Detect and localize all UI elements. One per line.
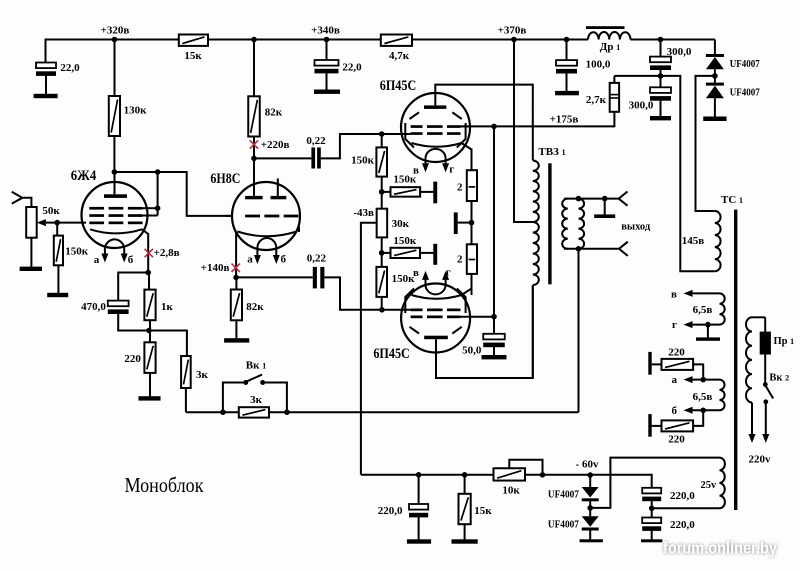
beam side rails lower [405, 289, 414, 314]
node cathode 6Н8С [233, 275, 239, 281]
svg-text:UF4007: UF4007 [548, 490, 579, 501]
svg-text:б: б [281, 254, 287, 266]
heater lead в upper [425, 158, 427, 165]
heater arch lower 6П45С [426, 285, 446, 295]
wire 220 upper to а node [693, 364, 703, 379]
svg-text:300,0: 300,0 [629, 100, 654, 112]
resistor 4,7к (rail) [381, 35, 412, 46]
ground below 150к input [47, 293, 68, 297]
node screen rail top [491, 124, 497, 130]
wire б lead [693, 409, 720, 411]
svg-text:6П45С: 6П45С [380, 78, 417, 94]
svg-text:6П45С: 6П45С [373, 346, 410, 362]
svg-text:150к: 150к [393, 235, 417, 247]
svg-text:ТС 1: ТС 1 [721, 194, 743, 206]
wire -43в tap [361, 223, 377, 475]
resistor 1к [148, 273, 150, 290]
svg-text:в: в [413, 267, 419, 279]
wire ground tap [707, 325, 709, 338]
svg-text:+140в: +140в [201, 262, 230, 274]
ground sideways upper 220 [648, 352, 651, 375]
wire chain top to mid [381, 177, 383, 209]
wire +175в line [461, 125, 615, 127]
resistor 30к [377, 209, 388, 238]
winding 25v [720, 458, 725, 509]
ground below 50,0 [482, 355, 507, 359]
node between D1 D2 [712, 73, 718, 79]
capacitor 470,0 [108, 301, 129, 307]
wire 3к to feedback rail [185, 388, 187, 412]
winding 220v primary ТС1 [746, 317, 752, 402]
resistor 3к (rail) [239, 407, 269, 417]
ground sideways lower 220 [648, 414, 651, 437]
anode 2 stub [277, 178, 279, 196]
ground below 300,0 #2 [650, 116, 671, 120]
node 82к top junction [251, 37, 257, 43]
heater arch 6Н8С [257, 238, 276, 247]
svg-text:б: б [672, 405, 678, 417]
ground below 220 [138, 396, 160, 400]
node bypass right [284, 409, 290, 415]
cathode arc 6Ж4 [90, 229, 142, 233]
svg-text:Др 1: Др 1 [600, 41, 620, 53]
resistor 150к (stopper 1) [391, 187, 421, 197]
switch Вк2 [763, 382, 768, 387]
anode 2 of 6Н8С [271, 196, 287, 199]
wire 0,22 #1 to upper grid line [321, 134, 411, 158]
output fork bottom [619, 242, 628, 256]
wire screen lower to node [461, 316, 495, 318]
resistor 2,7к [610, 83, 619, 112]
anode upper 6П45С [424, 105, 446, 109]
heater lead г upper [445, 158, 447, 165]
ground 6,5в [696, 337, 720, 340]
resistor 15к (bias) [464, 475, 466, 494]
heater lead а 6Н8С [256, 247, 258, 258]
svg-text:30к: 30к [392, 218, 410, 230]
svg-text:+340в: +340в [311, 25, 340, 37]
svg-text:50,0: 50,0 [462, 344, 482, 356]
capacitor 100,0 [556, 60, 577, 66]
svg-text:3к: 3к [250, 394, 263, 406]
control grid dashes lower [411, 309, 423, 312]
svg-text:2: 2 [457, 182, 463, 194]
svg-text:в: в [671, 288, 677, 300]
wire 2 lower to lower tube cathode [471, 274, 473, 295]
transformer ТВЗ1 primary winding [533, 161, 539, 223]
heater arch upper 6П45С [426, 149, 446, 159]
capacitor 300,0 #1 [650, 57, 671, 63]
wire 220,0 bias to ground [418, 515, 420, 540]
wire primary bottom to 220v arrow [751, 403, 753, 435]
wire grid line into envelope [225, 215, 232, 217]
resistor 130к [109, 96, 120, 136]
svg-text:6,5в: 6,5в [693, 391, 713, 403]
wire to 150к stopper 2 [382, 252, 391, 254]
svg-text:130к: 130к [124, 105, 148, 117]
svg-text:220: 220 [668, 434, 685, 446]
node 6,5в ground tap [705, 322, 711, 328]
wire 0,22 #2 to lower grid line [324, 277, 410, 309]
wire 2 upper to midpoint [471, 201, 473, 244]
tube 6Ж4 envelope [82, 182, 148, 248]
heater lead г lower [445, 277, 447, 284]
ground below 82к [224, 338, 249, 342]
svg-text:100,0: 100,0 [586, 59, 611, 71]
svg-text:150к: 150к [392, 273, 416, 285]
resistor 220 (ТС lower) [662, 420, 694, 431]
wire bypass left riser [223, 383, 246, 413]
heater lead б 6Н8С [275, 247, 277, 258]
switch Вк1 [243, 380, 248, 385]
node bypass left [220, 409, 226, 415]
wire mid node to 2,7к top [614, 75, 660, 77]
svg-text:г: г [672, 319, 677, 331]
svg-text:82к: 82к [246, 301, 264, 313]
wire stopper 2 to grid terminal [420, 252, 433, 254]
output fork top [619, 192, 628, 206]
svg-text:220,0: 220,0 [670, 519, 695, 531]
resistor 82к (anode 6Н8С) [253, 40, 255, 97]
svg-text:а: а [672, 374, 678, 386]
wire screen rail vertical [493, 126, 495, 316]
cathode terminal bar middle [454, 212, 458, 234]
grid terminal bar upper [433, 182, 437, 204]
tube 6П45С upper envelope [401, 93, 470, 162]
heater lead а 6Ж4 [104, 249, 106, 257]
wire screen upper to +175в [461, 125, 471, 127]
wire anode upper to ТВЗ [435, 85, 533, 161]
svg-text:0,22: 0,22 [307, 253, 327, 265]
resistor 220 (cathode) [149, 331, 151, 343]
wire в lead [693, 292, 720, 294]
wire g3 to tie point [143, 207, 158, 209]
wire ground stub [604, 199, 606, 215]
node g3 tie [155, 205, 161, 211]
ground below 220,0 B [641, 539, 662, 542]
ground below 220,0 bias [407, 539, 431, 543]
svg-text:220: 220 [668, 347, 685, 359]
wire g2 g3 tie vertical [157, 172, 159, 216]
wire screen node to 50,0 [493, 317, 495, 334]
wire cathode 6Н8С down [235, 232, 237, 278]
resistor 150к (input) [54, 236, 63, 266]
wire cathode terminal to 2ohm column [458, 222, 472, 224]
wire 220 lower to ground [652, 425, 662, 427]
wire 300,0 #1 to mid node [660, 68, 662, 76]
capacitor 22,0 (left) [36, 63, 56, 69]
svg-text:Вк 2: Вк 2 [769, 372, 789, 383]
heater lead в lower [425, 277, 427, 284]
capacitor 22,0 (second) [315, 60, 339, 66]
svg-text:выход: выход [621, 222, 651, 233]
node screen rail bottom [491, 314, 497, 320]
diode D3 UF4007 [589, 475, 591, 487]
node secondary top right coil [576, 196, 582, 202]
red mark +2,8в [145, 249, 153, 257]
wire +370в node down to 100,0 [566, 40, 568, 61]
inductor Др1 choke [586, 26, 625, 29]
wire 150к to ground [57, 265, 59, 293]
svg-text:470,0: 470,0 [81, 301, 106, 313]
red mark +140в [232, 264, 240, 272]
resistor 82к (cathode 6Н8С) [235, 277, 237, 289]
cathode arc lower 6П45С [412, 295, 462, 299]
wire 130к to anode node [113, 136, 115, 172]
svg-text:Вк 1: Вк 1 [246, 360, 266, 372]
node caps 220,0 midpoint [649, 506, 655, 512]
resistor 3к (vertical) [181, 356, 191, 388]
ground below 50к [20, 267, 42, 271]
tube 6Н8С envelope [232, 182, 300, 250]
screen grid dashes lower [411, 316, 423, 319]
wire anode 6Ж4 to 6Н8С grid [114, 172, 232, 216]
wiper arrow of 50к [37, 219, 46, 226]
wire 10к to -60v node [525, 474, 590, 476]
resistor 2 (lower) [467, 244, 477, 274]
capacitor 220,0 B [651, 508, 653, 517]
svg-text:10к: 10к [502, 485, 520, 497]
wire б tap to 220 lower [693, 410, 703, 426]
svg-text:2: 2 [457, 254, 463, 266]
svg-text:+320в: +320в [101, 25, 130, 37]
svg-text:6,5в: 6,5в [693, 304, 713, 316]
svg-text:+220в: +220в [261, 139, 290, 151]
svg-text:22,0: 22,0 [342, 62, 362, 74]
svg-text:г: г [446, 267, 451, 279]
wire а lead [693, 379, 720, 381]
wire 22,0 to ground [45, 74, 47, 95]
transformer ТВЗ1 core [548, 163, 551, 284]
node 220,0 bias cap [416, 472, 422, 478]
arrow 220v left [749, 434, 756, 443]
wire 2,7к bottom to +175в rail [613, 112, 615, 127]
svg-text:4,7к: 4,7к [389, 50, 410, 62]
wire fuse to switch [764, 354, 766, 385]
wire 22,0 #2 to ground [326, 71, 328, 90]
wire cathode node to 470,0 [118, 273, 148, 301]
node secondary bottom [576, 246, 582, 252]
grid terminal bar lower [433, 244, 437, 265]
svg-text:25v: 25v [701, 480, 718, 491]
svg-text:Моноблок: Моноблок [125, 473, 204, 497]
wire rail 15к to 4,7к [208, 39, 381, 41]
capacitor 220,0 A [642, 488, 661, 494]
wire anode node to 0,22 #1 [254, 157, 311, 159]
wire caps node to 25v winding bottom [652, 507, 720, 509]
wire to 150к stopper 1 [382, 191, 391, 193]
red mark +220в [250, 140, 258, 148]
wire 470,0 to bottom node [118, 312, 149, 331]
wire rail down to 300,0 #1 [660, 40, 662, 57]
winding 6,5в #1 [720, 293, 725, 324]
svg-text:82к: 82к [265, 107, 283, 119]
node а tap [700, 377, 706, 383]
wire 220,0 B to ground [651, 529, 653, 541]
input connector fork [12, 192, 22, 204]
svg-text:+175в: +175в [550, 114, 579, 126]
wiper tap 10к [509, 460, 542, 475]
svg-text:а: а [247, 254, 253, 266]
node cathode 6Ж4 [145, 270, 151, 276]
wire bypass right riser [263, 383, 287, 413]
resistor 220 (ТС upper) [662, 359, 694, 370]
wire 220,0 A to caps node [651, 499, 653, 509]
beam plates upper 6П45С [410, 112, 420, 119]
node grid stopper 2 [379, 250, 385, 256]
svg-text:+2,8в: +2,8в [154, 247, 180, 259]
wire 100,0 to ground [566, 71, 568, 91]
diode D4 UF4007 [589, 508, 591, 516]
wire cathode tail 6Ж4 [142, 229, 148, 272]
capacitor 50,0 [483, 334, 505, 340]
svg-text:forum.onliner.by: forum.onliner.by [663, 540, 778, 558]
capacitor 300,0 #2 [660, 76, 662, 87]
capacitor 0,22 #2 [313, 267, 317, 289]
node +340в junction [324, 37, 330, 43]
svg-text:300,0: 300,0 [667, 46, 692, 58]
grid g1 dashes 6Ж4 [89, 222, 104, 225]
transformer ТВЗ1 secondary winding left [562, 199, 568, 249]
wire 1к to bottom node [149, 320, 151, 330]
wire D3-D4 node to 25v winding top [590, 458, 719, 508]
capacitor 220,0 (bias) [418, 475, 420, 504]
wire rail +370в segment [412, 39, 588, 41]
node anode 6Н8С [251, 156, 257, 162]
svg-text:150к: 150к [65, 245, 89, 257]
svg-text:145в: 145в [682, 235, 705, 247]
wire chain mid to bottom [381, 237, 383, 267]
node cathode network bottom [146, 328, 152, 334]
node grid stopper 1 [379, 189, 385, 195]
node anode 6Ж4 [112, 169, 118, 175]
wire top supply rail +320в segment [46, 39, 179, 41]
wire г lead [693, 324, 720, 326]
svg-text:220,0: 220,0 [378, 505, 403, 517]
node 300,0 top junction [658, 37, 664, 43]
svg-text:2,7к: 2,7к [586, 94, 607, 106]
potentiometer 10к [494, 468, 526, 480]
wire stopper 1 to grid terminal [420, 191, 433, 193]
wire primary top to fuse [752, 316, 765, 318]
arrow 220v right [762, 434, 769, 443]
svg-text:1к: 1к [161, 301, 174, 313]
anode 1 of 6Н8С [245, 196, 263, 199]
wire +340в down to 22,0 #2 [326, 40, 328, 61]
potentiometer 50к [26, 207, 37, 238]
svg-text:+370в: +370в [498, 25, 527, 37]
wire cathode node to 0,22 #2 [236, 276, 313, 278]
capacitor 0,22 #1 [311, 147, 315, 168]
ground secondary [594, 214, 615, 218]
ground below 22,0 [34, 94, 58, 98]
anode of 6Ж4 [104, 194, 127, 198]
wire 50к to ground [30, 238, 32, 268]
node 100,0 junction [564, 37, 570, 43]
wire switch to 220v arrow [765, 402, 767, 435]
wire bottom node to 3к [149, 331, 187, 357]
resistor 150к (stopper 2) [391, 248, 421, 258]
svg-text:а: а [94, 254, 100, 266]
diode D2 UF4007 [714, 76, 716, 83]
resistor 2 (upper) [467, 170, 477, 201]
wire g2 to tie point [143, 215, 158, 217]
svg-text:220v: 220v [749, 453, 772, 465]
svg-text:-43в: -43в [353, 207, 374, 219]
winding 145в [715, 211, 721, 271]
node -60v diode tap [587, 472, 593, 478]
wire ground to 220 upper [652, 363, 662, 365]
node between D3 D4 [587, 505, 593, 511]
beam plates lower 6П45С [410, 327, 420, 334]
wire 50,0 to ground [493, 345, 495, 356]
ground below D2 [703, 117, 726, 122]
svg-text:3к: 3к [196, 369, 209, 381]
wire 82к to ground [235, 320, 237, 339]
tube 6П45С lower envelope [401, 284, 470, 353]
wire grid line 6Ж4 [46, 222, 86, 224]
wire D1-D2 node tap to 145в winding [696, 76, 715, 211]
wire secondary bottom [564, 248, 619, 250]
control grid dashes upper [411, 132, 423, 135]
ground below 100,0 [555, 91, 579, 95]
wire feedback rail [186, 411, 579, 413]
svg-text:б: б [128, 254, 134, 266]
wire 15к bias to ground [464, 524, 466, 540]
svg-text:UF4007: UF4007 [730, 59, 760, 70]
cathode tail upper 6П45С [462, 143, 472, 150]
wire junction to 150к [56, 223, 58, 236]
cathode arc upper 6П45С [412, 143, 462, 147]
svg-text:ТВЗ 1: ТВЗ 1 [538, 146, 565, 158]
node 300,0 caps midpoint [658, 73, 664, 79]
wire 220 to ground [149, 373, 151, 397]
grid dashes 6Н8С [245, 215, 260, 218]
anode lower 6П45С [424, 336, 448, 340]
svg-text:UF4007: UF4007 [730, 88, 760, 99]
ground below D4 [580, 539, 603, 542]
watermark forum.onliner.by [663, 540, 778, 558]
wire rail into diode D1 [714, 40, 716, 55]
node +320в junction [112, 37, 118, 43]
heater lead б 6Ж4 [123, 249, 125, 257]
wire rail left end down to 22,0 [45, 39, 47, 63]
svg-text:22,0: 22,0 [60, 62, 80, 74]
svg-text:220,0: 220,0 [670, 490, 695, 502]
heater arch 6Ж4 [105, 239, 124, 248]
svg-text:220: 220 [124, 353, 141, 365]
beam side rails upper [405, 123, 414, 148]
svg-text:в: в [413, 164, 419, 176]
winding 6,5в #2 [720, 380, 725, 411]
diode D1 UF4007 [706, 54, 724, 57]
wire +320в rail to 130к [114, 40, 116, 97]
resistor 150к (chain bottom) [376, 267, 387, 297]
node +370в junction [511, 37, 517, 43]
wire primary bottom lead [532, 285, 534, 378]
node 15к bias [462, 472, 468, 478]
node 150к input junction [54, 220, 60, 226]
wire secondary top [564, 198, 619, 200]
node б tap [700, 408, 706, 414]
grid g3 dashes 6Ж4 [89, 207, 104, 210]
node 2ohm midpoint [469, 220, 475, 226]
wire input to 50к [22, 198, 31, 207]
node 10к output [540, 472, 546, 478]
screen grid dashes upper [411, 125, 423, 128]
wire rail choke to diode top [631, 39, 715, 41]
transformer ТС1 core [734, 210, 737, 510]
